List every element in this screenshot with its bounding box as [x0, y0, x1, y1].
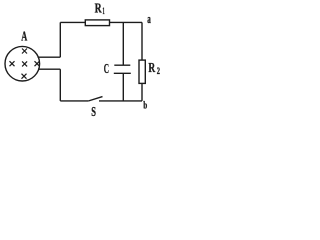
svg-text:b: b [143, 99, 147, 111]
svg-text:A: A [21, 30, 28, 45]
svg-text:R: R [148, 61, 155, 76]
svg-text:S: S [91, 105, 96, 120]
svg-text:a: a [147, 11, 151, 26]
svg-text:2: 2 [157, 66, 161, 76]
svg-text:R: R [95, 2, 103, 17]
svg-text:C: C [104, 62, 109, 77]
svg-text:1: 1 [103, 6, 105, 16]
